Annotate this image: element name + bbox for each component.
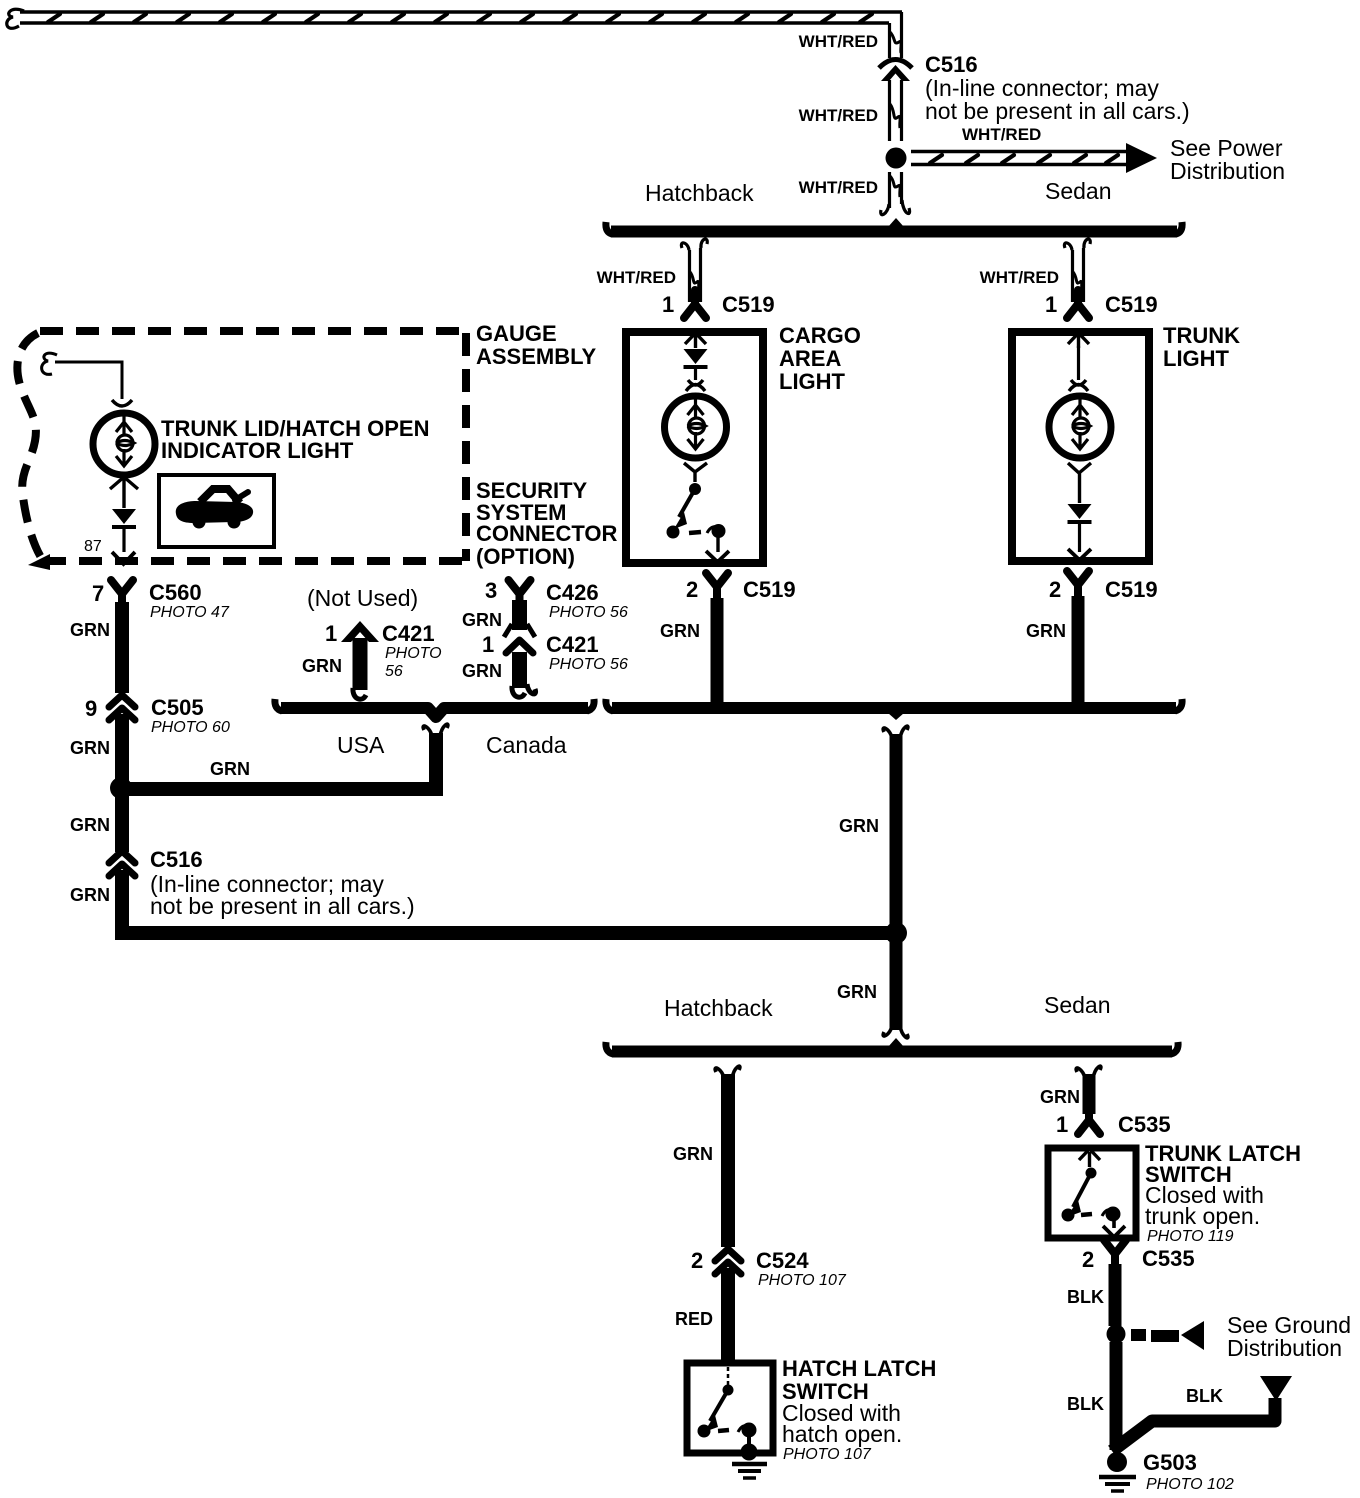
svg-text:INDICATOR LIGHT: INDICATOR LIGHT [161, 438, 354, 463]
svg-text:Distribution: Distribution [1170, 158, 1285, 184]
trunk latch switch internals [1062, 1149, 1126, 1237]
svg-text:(OPTION): (OPTION) [476, 544, 575, 569]
trunk lid/hatch open indicator light lamp [112, 400, 132, 406]
wire WHT/RED from junction to bus [881, 172, 910, 215]
svg-text:1: 1 [325, 621, 337, 646]
wire GRN from C516 to bottom run [122, 870, 896, 933]
svg-text:GRN: GRN [70, 620, 110, 640]
node junction (left) [110, 777, 132, 799]
svg-text:not be present in all cars.): not be present in all cars.) [150, 893, 415, 919]
svg-text:G503: G503 [1143, 1450, 1197, 1475]
bus USA/Canada (left segment) [275, 699, 594, 717]
svg-text:C519: C519 [1105, 292, 1158, 317]
svg-text:hatch open.: hatch open. [782, 1421, 902, 1447]
connector C426 pin 3 (security system) [509, 580, 531, 608]
diode (indicator) [112, 509, 136, 527]
svg-text:C426: C426 [546, 580, 599, 605]
trunk latch switch box [1048, 1148, 1136, 1238]
svg-text:PHOTO 47: PHOTO 47 [150, 604, 230, 621]
svg-text:RED: RED [675, 1309, 713, 1329]
arrow on dashed box corner [28, 554, 50, 570]
svg-text:C519: C519 [1105, 577, 1158, 602]
svg-text:2: 2 [686, 577, 698, 602]
cargo area light box [626, 332, 763, 563]
wire GRN from C560 [115, 602, 129, 693]
svg-text:C535: C535 [1118, 1112, 1171, 1137]
wire BLK to junction [1109, 1264, 1122, 1326]
svg-text:PHOTO 102: PHOTO 102 [1146, 1476, 1234, 1493]
svg-text:GRN: GRN [70, 815, 110, 835]
svg-text:WHT/RED: WHT/RED [799, 32, 878, 51]
svg-text:GRN: GRN [462, 661, 502, 681]
svg-text:C524: C524 [756, 1248, 809, 1273]
svg-text:C519: C519 [743, 577, 796, 602]
indicator light circuit: S hook [42, 353, 57, 374]
svg-text:Distribution: Distribution [1227, 1335, 1342, 1361]
svg-text:GRN: GRN [660, 621, 700, 641]
wire to indicator lamp [55, 362, 122, 399]
bus hatchback/sedan (top) [606, 218, 1182, 234]
svg-text:GRN: GRN [673, 1144, 713, 1164]
svg-text:Sedan: Sedan [1045, 178, 1112, 204]
svg-text:CONNECTOR: CONNECTOR [476, 521, 617, 546]
wire RED to hatch latch switch [721, 1268, 735, 1362]
connector C421 pin 1 (not used) [341, 621, 379, 699]
bus hatchback/sedan (bottom) [606, 1038, 1178, 1054]
svg-text:C519: C519 [722, 292, 775, 317]
connector C516 (in-line, top) [879, 60, 912, 142]
gauge assembly box (dashed) [17, 331, 466, 561]
ground G503 [1099, 1452, 1136, 1491]
node junction (center) [885, 922, 907, 944]
svg-text:1: 1 [1056, 1112, 1068, 1137]
wire GRN junction to USA/Canada bus [121, 724, 448, 796]
wire GRN trunk to bus [1072, 596, 1085, 706]
svg-text:1: 1 [1045, 292, 1057, 317]
car icon [176, 489, 253, 529]
svg-text:C421: C421 [546, 632, 599, 657]
arrow out of gauge box [112, 552, 135, 564]
svg-text:WHT/RED: WHT/RED [597, 268, 676, 287]
connector C505 pin 9 [109, 695, 135, 720]
svg-text:C560: C560 [149, 580, 202, 605]
svg-text:GRN: GRN [70, 738, 110, 758]
svg-text:PHOTO 60: PHOTO 60 [151, 719, 230, 736]
trunk light internals [1049, 333, 1111, 560]
connector C519 pin 1 (trunk) [1067, 290, 1089, 318]
connector C519 pin 2 (cargo) [706, 573, 728, 601]
connector C535 pin 2 [1104, 1240, 1126, 1268]
svg-text:C516: C516 [150, 847, 203, 872]
svg-text:87: 87 [84, 538, 102, 555]
svg-text:Hatchback: Hatchback [645, 180, 754, 206]
svg-text:56: 56 [385, 663, 403, 680]
svg-text:LIGHT: LIGHT [779, 369, 846, 394]
svg-text:BLK: BLK [1067, 1287, 1104, 1307]
cargo light internals [665, 333, 730, 563]
connector C519 pin 2 (trunk) [1067, 571, 1089, 599]
svg-text:9: 9 [85, 696, 97, 721]
wire GRN from C505 to junction [115, 714, 129, 852]
svg-text:Sedan: Sedan [1044, 992, 1111, 1018]
svg-text:TRUNK: TRUNK [1163, 323, 1240, 348]
car icon box [159, 475, 274, 547]
svg-text:GRN: GRN [462, 610, 502, 630]
svg-text:WHT/RED: WHT/RED [962, 125, 1041, 144]
svg-text:GRN: GRN [839, 816, 879, 836]
svg-text:trunk open.: trunk open. [1145, 1203, 1260, 1229]
svg-text:PHOTO: PHOTO [385, 645, 442, 662]
wire GRN cargo to bus [711, 598, 724, 706]
svg-text:C516: C516 [925, 52, 978, 77]
svg-text:2: 2 [1082, 1247, 1094, 1272]
svg-text:Hatchback: Hatchback [664, 995, 773, 1021]
svg-text:GRN: GRN [302, 656, 342, 676]
connector C535 pin 1 [1078, 1106, 1100, 1134]
node junction (ground distribution) [1107, 1325, 1126, 1344]
trunk light box [1012, 332, 1149, 561]
wire BLK branch to ground distribution arrow [1112, 1376, 1292, 1451]
wire GRN sedan drop [1076, 1066, 1101, 1114]
svg-text:BLK: BLK [1067, 1394, 1104, 1414]
svg-text:2: 2 [691, 1248, 703, 1273]
svg-text:PHOTO 107: PHOTO 107 [783, 1446, 872, 1463]
wire GRN hatchback drop [715, 1066, 740, 1247]
svg-text:7: 7 [92, 581, 104, 606]
svg-text:PHOTO 56: PHOTO 56 [549, 656, 628, 673]
svg-text:GRN: GRN [70, 885, 110, 905]
bus below lights (right segment) [606, 699, 1182, 720]
svg-text:PHOTO 119: PHOTO 119 [1147, 1228, 1234, 1245]
arrow See Power Distribution [911, 143, 1157, 173]
svg-text:GRN: GRN [837, 982, 877, 1002]
node junction at C516 [886, 148, 907, 169]
connector C516 (in-line, lower) [109, 851, 135, 876]
wire GRN center riser [883, 726, 908, 1038]
connector C519 pin 1 (cargo) [684, 290, 706, 318]
wire WHT/RED drop to cargo light [681, 239, 707, 302]
svg-text:not be present in all cars.): not be present in all cars.) [925, 98, 1190, 124]
svg-text:BLK: BLK [1186, 1386, 1223, 1406]
svg-text:(Not Used): (Not Used) [307, 585, 418, 611]
svg-text:CARGO: CARGO [779, 323, 861, 348]
connector C524 pin 2 [715, 1249, 741, 1274]
hatch latch switch box [687, 1363, 773, 1453]
svg-text:GRN: GRN [210, 759, 250, 779]
ground (hatch latch) [732, 1444, 767, 1479]
svg-text:WHT/RED: WHT/RED [799, 106, 878, 125]
power bus (hot at all times) [7, 9, 902, 28]
svg-text:PHOTO 107: PHOTO 107 [758, 1272, 847, 1289]
svg-text:ASSEMBLY: ASSEMBLY [476, 344, 597, 369]
svg-text:WHT/RED: WHT/RED [980, 268, 1059, 287]
svg-text:1: 1 [482, 632, 494, 657]
connector C421 pin 1 (security system) [506, 640, 533, 653]
connector C560 pin 7 [111, 580, 133, 608]
svg-text:GRN: GRN [1040, 1087, 1080, 1107]
svg-text:GRN: GRN [1026, 621, 1066, 641]
wire BLK junction to G503 [1110, 1342, 1123, 1450]
svg-text:PHOTO 56: PHOTO 56 [549, 604, 628, 621]
svg-text:C535: C535 [1142, 1246, 1195, 1271]
wire WHT/RED drop to trunk light [1064, 239, 1090, 302]
svg-text:3: 3 [485, 578, 497, 603]
arrow See Ground Distribution [1131, 1321, 1204, 1350]
svg-text:C505: C505 [151, 695, 204, 720]
svg-text:LIGHT: LIGHT [1163, 346, 1230, 371]
svg-text:1: 1 [662, 292, 674, 317]
svg-text:GAUGE: GAUGE [476, 321, 557, 346]
svg-text:HATCH LATCH: HATCH LATCH [782, 1356, 936, 1381]
svg-text:Canada: Canada [486, 732, 567, 758]
svg-text:2: 2 [1049, 577, 1061, 602]
hatch latch switch internals [698, 1367, 757, 1450]
svg-text:AREA: AREA [779, 346, 841, 371]
svg-text:C421: C421 [382, 621, 435, 646]
wire WHT/RED from bus to C516 [890, 12, 902, 58]
svg-text:WHT/RED: WHT/RED [799, 178, 878, 197]
svg-text:USA: USA [337, 732, 385, 758]
